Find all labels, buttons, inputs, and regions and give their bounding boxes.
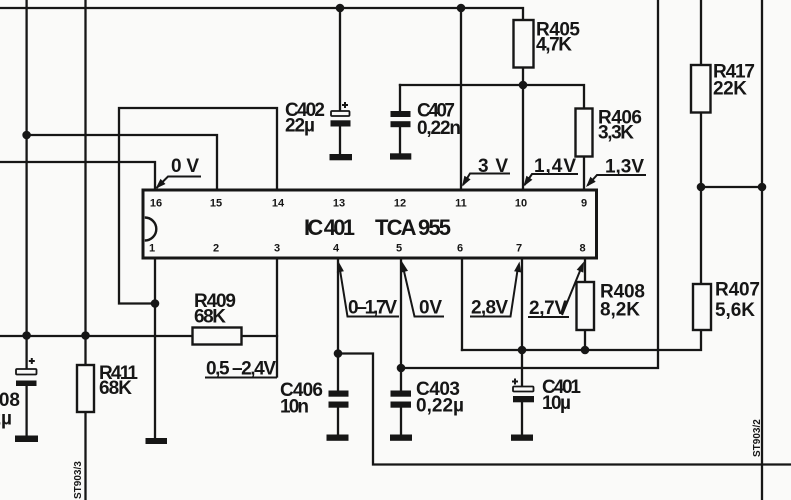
wire: bottom return via right jog — [338, 354, 791, 465]
wire: C402 top lead from rail — [339, 8, 341, 111]
wire: R408 bottom to net A — [584, 330, 586, 350]
svg-text:68K: 68K — [99, 378, 132, 399]
svg-text:0,22n: 0,22n — [417, 118, 461, 139]
svg-text:16: 16 — [150, 198, 162, 210]
svg-text:TCA 955: TCA 955 — [375, 215, 451, 240]
svg-text:8,2K: 8,2K — [600, 300, 640, 321]
svg-text:12: 12 — [394, 198, 406, 210]
wire: pin 15 feed from left bus — [27, 135, 217, 189]
ground bar below C408 — [15, 436, 38, 443]
svg-text:22K: 22K — [713, 79, 749, 100]
capacitor C406 10n — [280, 380, 349, 418]
node 2,7V at pin 8 — [528, 262, 584, 320]
resistor R411 68K — [77, 363, 138, 412]
wire: R411 bottom lead off sheet — [84, 412, 86, 500]
svg-text:0,22µ: 0,22µ — [416, 396, 464, 417]
wire: C401 bottom lead — [521, 403, 523, 435]
wire: R405 bottom lead to pin 10 — [522, 68, 524, 190]
svg-text:0 V: 0 V — [171, 156, 199, 177]
resistor R408 8,2K — [577, 282, 646, 331]
resistor R407 5,6K — [693, 280, 760, 331]
ground bar below pin 1 — [146, 438, 168, 444]
wire: pin 5 to C403 — [400, 258, 402, 391]
wire: pin 11 vertical from rail — [460, 8, 462, 189]
capacitor C402 22µ electrolytic — [285, 100, 351, 137]
ground bar below C407 — [390, 153, 411, 159]
wire: R417 bottom to R407 top — [700, 113, 702, 285]
svg-text:IC 401: IC 401 — [304, 215, 355, 240]
node 0V at pin 5 — [401, 262, 444, 319]
wire: pin 8 to R408 top — [584, 258, 586, 282]
ground bar below C403 — [390, 435, 412, 441]
wire: C407 bottom lead — [399, 127, 401, 153]
svg-text:1: 1 — [149, 243, 155, 255]
wire: C403 bottom lead — [400, 408, 402, 435]
wire: right edge vertical bus — [761, 0, 763, 500]
capacitor C407 0,22n — [391, 101, 462, 140]
wire: 3V node rail to R406 — [400, 85, 584, 109]
op-amp IC U401: IC401 TCA 955 body — [143, 190, 597, 258]
svg-text:22µ: 22µ — [285, 116, 315, 137]
svg-text:4: 4 — [333, 243, 340, 255]
svg-text:2,7V: 2,7V — [529, 298, 567, 319]
svg-text:6: 6 — [457, 243, 463, 255]
wire: left vertical bus to C408 — [25, 0, 27, 369]
ground bar below C406 — [327, 435, 349, 441]
node 0-1,7V at pin 4 — [337, 262, 399, 319]
wire: pin 14 bent feedback to pin-1 node — [119, 108, 277, 304]
svg-text:22µ: 22µ — [0, 409, 12, 430]
wire: C407 top lead — [399, 85, 401, 111]
wire: pin 6 down to net A — [461, 258, 463, 350]
node 0V at pin 16 — [156, 156, 202, 189]
svg-text:R407: R407 — [715, 280, 760, 301]
node 0,5-2,4V at pin 3 — [205, 359, 277, 380]
svg-text:4,7K: 4,7K — [536, 35, 572, 56]
resistor R405 4,7K — [514, 20, 581, 68]
wire: pin 1 to ground — [154, 258, 156, 438]
wire: pin 16 feed from left edge — [0, 162, 155, 189]
resistor R409 68K — [193, 291, 242, 345]
wire: R409 left feed from left edge — [0, 335, 193, 337]
svg-text:11: 11 — [455, 198, 467, 210]
capacitor C408 electrolytic (edge clipped) — [0, 358, 37, 430]
svg-text:8: 8 — [579, 243, 585, 255]
svg-text:5: 5 — [396, 243, 402, 255]
svg-text:ST903/3: ST903/3 — [73, 461, 84, 499]
wire: link between right verticals — [701, 186, 762, 188]
svg-text:7: 7 — [516, 243, 522, 255]
node 3V at pin 11 — [462, 156, 510, 187]
svg-text:5,6K: 5,6K — [715, 300, 755, 321]
svg-text:0,5 –2,4V: 0,5 –2,4V — [206, 359, 276, 380]
wire: +supply top rail — [0, 8, 523, 20]
node 1,3V at pin 9 — [586, 157, 646, 188]
ground bar below C402 — [330, 154, 353, 160]
wire: R406 bottom lead to pin 9 — [583, 157, 585, 190]
wire: C408 bottom lead — [25, 386, 27, 436]
capacitor C403 0,22µ — [391, 379, 465, 417]
svg-text:0V: 0V — [419, 298, 442, 319]
svg-text:2: 2 — [213, 243, 219, 255]
svg-text:3,3K: 3,3K — [598, 123, 634, 144]
node 1,4V at pin 10 — [524, 156, 579, 187]
svg-text:13: 13 — [333, 198, 345, 210]
svg-text:ST903/2: ST903/2 — [752, 419, 763, 457]
wire: second left vertical bus to R411 — [84, 0, 86, 365]
wire: C402 bottom lead — [339, 127, 341, 155]
wire: C406 bottom lead — [337, 408, 339, 435]
wire: pin 4 to C406 — [337, 258, 339, 391]
wire: pin 7 to C401 — [521, 258, 523, 386]
svg-text:15: 15 — [210, 198, 222, 210]
svg-text:3: 3 — [274, 243, 280, 255]
svg-text:0–1,7V: 0–1,7V — [348, 298, 397, 319]
wire: R417 branch vertical — [700, 0, 702, 65]
wire: net A horizontal to R407 — [462, 330, 701, 350]
svg-text:14: 14 — [272, 198, 285, 210]
svg-text:10: 10 — [515, 198, 527, 210]
svg-text:2,8V: 2,8V — [471, 298, 508, 319]
capacitor C401 10µ electrolytic — [512, 377, 581, 414]
wire: R409 right to pin 3 — [242, 335, 278, 337]
svg-text:9: 9 — [581, 198, 587, 210]
ground bar below C401 — [511, 435, 533, 441]
node 2,8V at pin 7 — [470, 262, 521, 319]
svg-text:68K: 68K — [194, 307, 226, 328]
svg-text:10µ: 10µ — [542, 393, 571, 414]
wire: pin 3 stub — [276, 258, 278, 377]
resistor R406 3,3K — [576, 108, 643, 157]
svg-text:10n: 10n — [280, 397, 309, 418]
resistor R417 22K — [691, 62, 755, 113]
wire: net B from C403 node up right side — [401, 0, 658, 368]
